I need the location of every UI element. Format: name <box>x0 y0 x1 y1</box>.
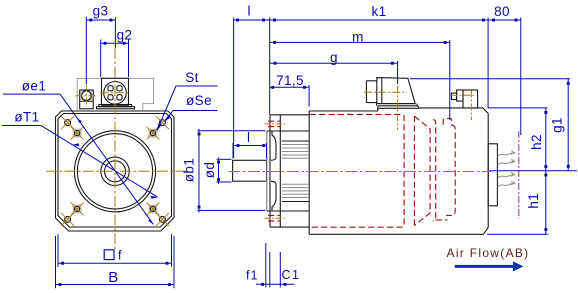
svg-text:g2: g2 <box>117 28 133 43</box>
svg-text:B: B <box>108 269 118 286</box>
svg-text:h1: h1 <box>526 193 541 209</box>
svg-text:g3: g3 <box>93 4 109 19</box>
svg-text:C1: C1 <box>282 268 301 282</box>
svg-text:øb1: øb1 <box>182 158 197 182</box>
svg-text:øe1: øe1 <box>22 78 46 93</box>
svg-text:80: 80 <box>494 4 510 19</box>
svg-text:l: l <box>247 130 250 145</box>
svg-text:h2: h2 <box>529 134 544 150</box>
svg-text:71,5: 71,5 <box>276 73 304 88</box>
svg-text:ød: ød <box>202 162 217 179</box>
svg-text:f: f <box>118 249 122 263</box>
svg-text:Air Flow(AB): Air Flow(AB) <box>447 246 530 260</box>
svg-text:m: m <box>352 30 364 45</box>
svg-text:g: g <box>330 50 338 65</box>
svg-text:øT1: øT1 <box>14 109 39 124</box>
svg-text:g1: g1 <box>550 117 565 133</box>
svg-text:l: l <box>248 4 251 19</box>
svg-text:k1: k1 <box>371 4 386 19</box>
svg-text:f1: f1 <box>246 269 258 283</box>
svg-text:øSe: øSe <box>186 93 212 108</box>
svg-text:St: St <box>185 70 199 85</box>
